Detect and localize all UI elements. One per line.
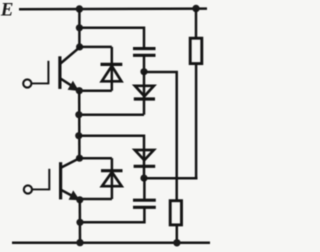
wire C2 top lead	[143, 178, 146, 199]
junction dot Q2 emitter	[76, 196, 83, 203]
junction dot top rail / R1 branch	[192, 5, 199, 12]
wire D2 anode to emitter node	[80, 198, 112, 201]
junction dot bottom rail / trunk	[76, 239, 83, 246]
body bar	[58, 56, 61, 89]
junction dot bottom rail / R2	[173, 239, 180, 246]
capacitor C1	[133, 49, 156, 56]
wire bottom rail N	[12, 241, 210, 244]
node A1 junction dot	[140, 68, 147, 75]
junction dot Q2 collector	[76, 155, 83, 162]
svg-text:E: E	[0, 0, 13, 21]
wire Q2 collector to D2	[80, 157, 112, 160]
junction dot C2 return	[76, 219, 83, 226]
junction dot Q1 emitter	[76, 87, 83, 94]
wire R1 top lead	[195, 9, 198, 39]
transistor Q1 (IGBT)	[23, 47, 80, 91]
wire C1 top branch	[79, 28, 144, 48]
wire trunk midpoint segment	[78, 91, 81, 159]
transistor Q2 (IGBT)	[24, 158, 80, 200]
gate wire	[32, 188, 49, 190]
collector lead	[61, 47, 80, 63]
node A2 junction dot	[140, 175, 147, 182]
junction dot D3 return	[75, 111, 82, 118]
wire trunk upper segment	[78, 9, 81, 47]
diode D3 snubber (cathode down)	[134, 72, 155, 115]
resistor R2	[170, 201, 181, 225]
resistor R1	[190, 38, 202, 63]
wire D3 to midpoint	[79, 113, 144, 116]
gate terminal circle	[24, 185, 32, 193]
wire D4 branch	[79, 136, 144, 150]
collector lead	[61, 158, 80, 168]
wire R1 bottom lead	[195, 64, 198, 179]
gate terminal circle	[23, 79, 31, 87]
emitter arrowhead	[68, 81, 79, 91]
emitter arrowhead	[69, 190, 80, 200]
gate wire	[31, 82, 48, 84]
emitter lead	[61, 79, 79, 91]
gate bar	[48, 169, 50, 191]
gate bar	[47, 61, 49, 85]
junction dot top rail / trunk	[76, 5, 83, 12]
wire A1 to right bus	[144, 72, 177, 201]
wire D1 anode to midpoint	[79, 89, 112, 92]
junction dot Q1 collector	[76, 43, 83, 50]
wire trunk lower segment	[79, 200, 82, 243]
wire top rail P	[19, 7, 207, 10]
diode D2 freewheel (cathode up)	[101, 158, 123, 199]
wire C2 bottom to emitter node	[80, 209, 144, 223]
wire C1 bottom lead	[143, 57, 146, 72]
diode D4 snubber (cathode down)	[134, 149, 156, 178]
junction dot D4 branch	[75, 132, 82, 139]
capacitor C2	[133, 200, 156, 207]
wire R2 bottom lead	[176, 225, 179, 243]
junction dot snubber C1 branch	[76, 24, 83, 31]
emitter lead	[61, 190, 79, 200]
diode D1 freewheel (cathode up)	[101, 47, 123, 91]
wire A2 to right bus	[144, 177, 198, 180]
body bar	[59, 162, 62, 199]
wire Q1 collector to D1	[80, 46, 112, 49]
